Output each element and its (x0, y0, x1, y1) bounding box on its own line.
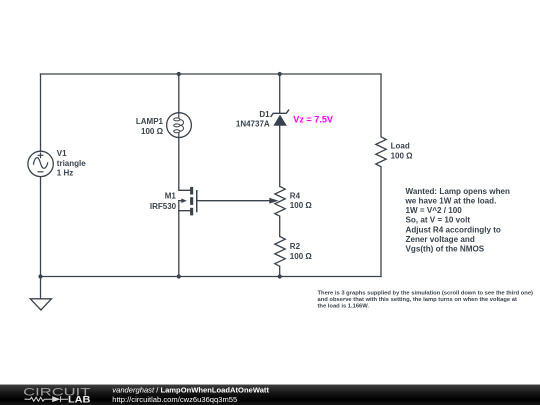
svg-text:There is 3 graphs supplied by: There is 3 graphs supplied by the simula… (318, 291, 534, 297)
svg-text:R4: R4 (290, 191, 301, 200)
svg-text:100 Ω: 100 Ω (290, 252, 313, 261)
svg-text:we have 1W at the load.: we have 1W at the load. (405, 197, 497, 206)
svg-text:1 Hz: 1 Hz (57, 168, 73, 177)
svg-text:1N4737A: 1N4737A (236, 120, 270, 129)
svg-text:http://circuitlab.com/cwz6u36q: http://circuitlab.com/cwz6u36qq3m55 (112, 395, 237, 404)
svg-text:100 Ω: 100 Ω (290, 201, 313, 210)
svg-text:Vgs(th) of the NMOS: Vgs(th) of the NMOS (406, 245, 485, 254)
svg-text:LAMP1: LAMP1 (136, 117, 164, 126)
svg-text:Adjust R4 accordingly to: Adjust R4 accordingly to (406, 225, 501, 234)
svg-text:So, at V = 10 volt: So, at V = 10 volt (406, 216, 471, 225)
svg-text:Wanted: Lamp opens when: Wanted: Lamp opens when (406, 187, 511, 196)
svg-text:R2: R2 (290, 242, 301, 251)
svg-text:and observe that with this set: and observe that with this setting, the … (318, 297, 517, 303)
svg-text:the load is 1.166W.: the load is 1.166W. (318, 304, 370, 310)
svg-text:1W = V^2 / 100: 1W = V^2 / 100 (406, 206, 463, 215)
svg-text:LAB: LAB (68, 394, 91, 404)
svg-text:IRF530: IRF530 (150, 202, 177, 211)
svg-text:100 Ω: 100 Ω (141, 127, 164, 136)
svg-text:Load: Load (391, 142, 410, 151)
svg-text:Vz = 7.5V: Vz = 7.5V (293, 114, 333, 124)
svg-text:Zener voltage and: Zener voltage and (406, 235, 475, 244)
svg-text:triangle: triangle (57, 159, 86, 168)
svg-text:vanderghast / LampOnWhenLoadAt: vanderghast / LampOnWhenLoadAtOneWatt (112, 385, 269, 394)
svg-text:D1: D1 (259, 110, 270, 119)
svg-text:V1: V1 (57, 149, 67, 158)
svg-text:100 Ω: 100 Ω (391, 151, 414, 160)
svg-text:M1: M1 (165, 192, 177, 201)
